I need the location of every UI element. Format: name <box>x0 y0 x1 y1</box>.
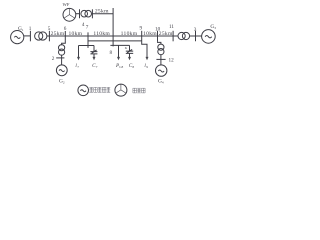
wire line 8-9 circuit 2 <box>113 40 142 42</box>
wire WF to bus 4 <box>76 13 80 15</box>
wire line 6-7 (10km) <box>65 35 88 37</box>
bus 5 <box>48 31 50 42</box>
bus 1 <box>29 31 31 42</box>
wire T3 to bus 3 <box>190 35 196 37</box>
bus 7 <box>87 32 89 48</box>
text labels <box>18 2 216 85</box>
transformer T2 <box>59 45 65 51</box>
wind farm WF <box>63 8 76 21</box>
bus 2 <box>56 57 64 59</box>
svg-text:12: 12 <box>169 57 175 63</box>
legend text "wind farm" (3 CJK chars) <box>133 88 145 93</box>
wire line 7-8 circuit 1 (110km) <box>88 35 113 37</box>
wire line 5-6 (25km) <box>49 35 65 37</box>
svg-text:25km: 25km <box>159 31 173 37</box>
wire T5 to bus 12 <box>160 54 162 65</box>
bus 12 <box>156 58 165 60</box>
generator G2 <box>56 65 67 76</box>
svg-text:7: 7 <box>86 25 89 31</box>
capacitor C8 <box>126 45 133 57</box>
wire bus 3 to G3 <box>196 35 202 37</box>
legend text "conventional synchronous machine" (5 CJK chars) <box>89 87 110 92</box>
bus 3 <box>195 31 197 42</box>
bus bar right of T4 <box>91 9 93 18</box>
svg-text:11: 11 <box>169 24 174 30</box>
transformer T1 <box>35 32 43 40</box>
svg-text:WF: WF <box>63 2 70 7</box>
legend sync machine symbol <box>78 85 89 96</box>
transformer T3 <box>178 32 185 39</box>
arrowhead load L7 <box>77 57 80 60</box>
svg-text:7: 7 <box>96 65 98 69</box>
wire line 4-8 (25km) <box>92 13 113 15</box>
legend wind farm symbol <box>115 84 127 96</box>
svg-text:110km: 110km <box>121 31 138 37</box>
svg-text:10km: 10km <box>143 31 157 37</box>
generator G4 <box>156 65 167 76</box>
svg-text:25km: 25km <box>95 9 109 15</box>
transformer T4 <box>81 10 88 17</box>
load stub at bus 7 <box>79 45 95 47</box>
bus 8 <box>112 8 114 46</box>
load L7 drop <box>78 46 80 58</box>
generator G1 <box>11 30 24 43</box>
svg-text:2: 2 <box>52 56 55 62</box>
wire G1 to bus 1 <box>24 35 31 37</box>
arrowhead C7 <box>93 57 96 60</box>
wire line 10-11 (25km) <box>158 35 174 37</box>
wire line 7-8 circuit 2 <box>88 40 113 42</box>
wire bus 6 to T2 <box>62 41 66 45</box>
arrowhead load L9 <box>146 57 149 60</box>
wire T1 to bus 5 <box>47 35 50 37</box>
arrowhead C8 <box>128 57 131 60</box>
bus 4 <box>79 9 81 18</box>
bus 11 <box>172 31 174 42</box>
svg-text:1: 1 <box>29 26 32 32</box>
svg-text:7: 7 <box>77 65 79 69</box>
legend text: simulated CJK glyph blocks <box>89 87 145 93</box>
load drop at bus 9 <box>142 41 147 57</box>
svg-text:L8: L8 <box>119 65 123 69</box>
svg-text:110km: 110km <box>93 31 110 37</box>
transformer T5 <box>158 44 164 50</box>
svg-text:25km: 25km <box>51 31 65 37</box>
bus 10 <box>157 31 159 42</box>
wire line 9-10 (10km) <box>142 35 158 37</box>
wire line 8-9 circuit 1 (110km) <box>113 35 142 37</box>
svg-text:9: 9 <box>140 25 143 31</box>
svg-text:8: 8 <box>110 50 113 56</box>
capacitor C7 <box>90 46 97 58</box>
wire bus 10 to T5 <box>158 41 161 44</box>
bus 6 <box>64 31 66 41</box>
svg-text:9: 9 <box>146 65 148 69</box>
wire T2 to bus 2 <box>61 55 63 65</box>
bus 9 <box>141 31 143 42</box>
arrowhead load P8 <box>117 57 120 60</box>
svg-text:3: 3 <box>194 27 197 33</box>
svg-text:8: 8 <box>132 65 134 69</box>
svg-text:4: 4 <box>82 22 85 28</box>
svg-text:10km: 10km <box>68 31 82 37</box>
generator G3 <box>202 30 216 44</box>
load P drop <box>118 45 120 57</box>
wire bus 11 to T3 <box>173 35 178 37</box>
load stub at bus 8 <box>110 44 129 46</box>
